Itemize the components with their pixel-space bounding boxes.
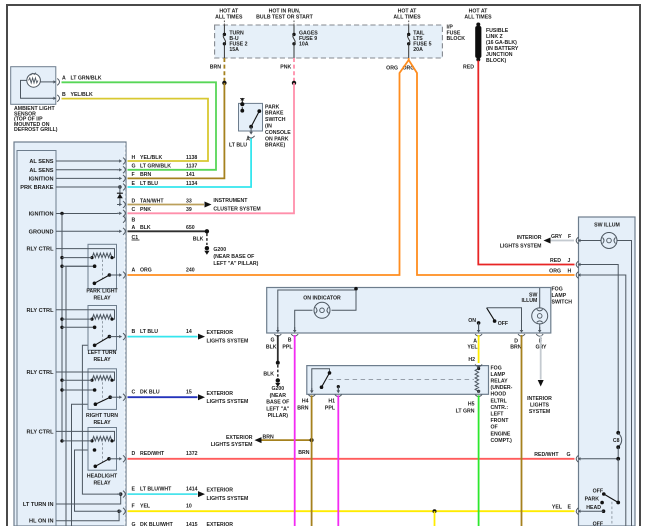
splice on PNK [292, 81, 296, 85]
fog switch internal wire lever to pin D [487, 308, 522, 332]
headlight switch box [579, 217, 636, 526]
wire illumination lamp down right side [617, 241, 632, 526]
svg-text:LIGHTS SYSTEM: LIGHTS SYSTEM [207, 339, 249, 345]
wire ORG fuse 5 split left branch [128, 58, 409, 275]
svg-text:EXTERIOR: EXTERIOR [207, 330, 234, 336]
svg-text:FOG: FOG [552, 287, 563, 293]
svg-text:LEFT "A" PILLAR): LEFT "A" PILLAR) [213, 261, 258, 267]
right turn relay coil [92, 376, 112, 381]
svg-text:LT BLU: LT BLU [140, 181, 158, 187]
svg-text:BLK: BLK [193, 237, 204, 243]
svg-text:PARK: PARK [585, 496, 600, 502]
svg-text:INTERIOR: INTERIOR [527, 396, 552, 402]
wire BLK dashed to G200 pillar [277, 365, 279, 377]
wire B LT BLU 14 [128, 336, 198, 338]
svg-text:LT GRN/BLK: LT GRN/BLK [71, 76, 102, 82]
svg-text:ON: ON [468, 318, 476, 324]
svg-text:YEL/BLK: YEL/BLK [140, 155, 162, 161]
headlight switch pin F [576, 237, 578, 244]
park brake switch terminal dots [240, 102, 244, 106]
svg-text:RLY CTRL: RLY CTRL [26, 247, 54, 253]
sensor internal wire to pin A [40, 81, 52, 83]
svg-text:G: G [270, 338, 274, 344]
fog switch internal wire pin G to edge junction [278, 290, 356, 332]
connector C2 pin B [117, 336, 122, 338]
fog switch ON contact [477, 321, 481, 325]
svg-text:ALL TIMES: ALL TIMES [215, 15, 243, 21]
junction pin F row [117, 510, 120, 513]
headlight switch pin H [576, 272, 578, 279]
svg-text:BULB TEST OR START: BULB TEST OR START [256, 15, 314, 21]
junction IGNITION bus [60, 212, 63, 215]
svg-text:PPL: PPL [325, 405, 336, 411]
svg-text:650: 650 [186, 225, 195, 231]
wire pin F to illumination lamp [584, 240, 602, 242]
svg-text:RED: RED [550, 258, 561, 264]
svg-text:DK BLU/WHT: DK BLU/WHT [140, 522, 174, 526]
svg-text:BLOCK): BLOCK) [486, 58, 506, 64]
fog lamp relay pin H1 stub [337, 385, 340, 388]
right turn relay contact feed wire [60, 388, 63, 391]
wire AL SENS to pin G [56, 169, 118, 171]
svg-text:ILLUM: ILLUM [522, 298, 538, 304]
svg-text:BASE OF: BASE OF [266, 400, 289, 406]
svg-text:BLOCK: BLOCK [447, 36, 466, 42]
svg-text:J: J [568, 258, 571, 264]
fusible link Z [476, 23, 480, 27]
svg-text:1372: 1372 [186, 451, 198, 457]
fog lamp relay armature lever [322, 373, 330, 387]
svg-text:PNK: PNK [140, 207, 151, 213]
sensor photocell element [27, 74, 41, 88]
left turn relay mechanical link [102, 321, 104, 341]
park light relay RLY CTRL wire to coil [56, 249, 115, 258]
svg-text:240: 240 [186, 267, 195, 273]
svg-text:141: 141 [186, 172, 195, 178]
svg-text:ENGINE: ENGINE [491, 431, 511, 437]
svg-text:RELAY: RELAY [93, 420, 111, 426]
svg-text:PARK: PARK [265, 104, 280, 110]
svg-text:ALL TIMES: ALL TIMES [393, 15, 421, 21]
svg-text:RED: RED [463, 65, 474, 71]
svg-text:H4: H4 [302, 399, 309, 405]
wire HL ON IN to pin F row [56, 511, 119, 521]
wire H5 LT GRN fog relay down [478, 395, 480, 526]
right turn relay box [88, 369, 117, 410]
park relay contact bus wire [66, 266, 95, 526]
svg-text:1415: 1415 [186, 522, 198, 526]
svg-text:HEADLIGHT: HEADLIGHT [87, 474, 118, 480]
right turn relay output stub to pin [110, 396, 117, 398]
svg-text:BLK: BLK [266, 344, 277, 350]
connector C1 pin B (empty) [123, 216, 125, 223]
fog lamp relay mechanical link [329, 379, 474, 381]
left turn relay stationary contact [93, 326, 97, 330]
svg-text:33: 33 [186, 198, 192, 204]
indicator lamp [314, 302, 330, 318]
svg-text:LT TURN IN: LT TURN IN [23, 502, 54, 508]
left turn relay output stub to pin [109, 336, 117, 338]
svg-text:C8: C8 [613, 438, 620, 444]
svg-text:B: B [132, 329, 136, 335]
svg-text:IGNITION: IGNITION [29, 212, 54, 218]
wire F YEL 10 to headlight switch pin E [128, 510, 575, 512]
svg-text:F: F [132, 172, 135, 178]
junction pin E row [119, 492, 122, 495]
svg-text:H: H [132, 155, 136, 161]
svg-text:LT BLU: LT BLU [229, 142, 247, 148]
svg-text:LT GRN/BLK: LT GRN/BLK [140, 164, 171, 170]
wire PNK fuse 9 to pin C [128, 83, 295, 213]
svg-text:ORG: ORG [549, 268, 561, 274]
ground G200 fog switch [276, 378, 280, 382]
splice on G BLK [276, 361, 280, 365]
wire A BLK 650 to ground [128, 230, 207, 232]
svg-text:F: F [568, 234, 571, 240]
svg-text:ELTRL: ELTRL [491, 398, 508, 404]
park brake switch box [239, 103, 263, 131]
svg-text:SYSTEM: SYSTEM [529, 409, 550, 415]
sensor pin B [52, 97, 55, 99]
fog lamp relay pin H5 [478, 390, 480, 393]
headlight relay coil [92, 436, 112, 441]
svg-text:LEFT TURN: LEFT TURN [88, 350, 117, 356]
svg-text:RLY CTRL: RLY CTRL [26, 370, 54, 376]
wire D BRN fog switch down [521, 335, 523, 526]
svg-text:G: G [132, 522, 136, 526]
svg-text:LIGHTS SYSTEM: LIGHTS SYSTEM [207, 496, 249, 502]
fog switch illumination lamp feed from box edge [539, 288, 541, 308]
connector C2 pin D [117, 458, 122, 460]
svg-text:PPL: PPL [282, 344, 293, 350]
svg-text:DEFROST GRILL): DEFROST GRILL) [14, 127, 58, 133]
svg-text:IGNITION: IGNITION [29, 176, 54, 182]
fog lamp relay coil [477, 367, 480, 370]
ignition bus wire [61, 214, 63, 441]
svg-text:LEFT "A": LEFT "A" [266, 406, 290, 412]
svg-text:INTERIOR: INTERIOR [517, 235, 542, 241]
fog lamp relay internal wire pin H4 to contact [312, 369, 330, 392]
svg-text:LIGHTS SYSTEM: LIGHTS SYSTEM [500, 243, 542, 249]
park light relay coil feed from ignition bus [60, 256, 63, 259]
svg-text:G200: G200 [213, 247, 226, 253]
headlight relay contact bus wire [75, 450, 119, 511]
svg-text:BRN: BRN [263, 434, 274, 440]
wire LT TURN IN to pin E row [56, 494, 121, 504]
wire bus to switch lever [617, 459, 619, 502]
connector C2 pin E [117, 493, 122, 495]
right turn relay RLY CTRL wire to coil [56, 372, 115, 380]
right turn relay mechanical link [102, 382, 104, 400]
left turn relay coil [92, 315, 112, 320]
connector C2 pin F [117, 510, 122, 512]
connector C2 pin C [117, 396, 122, 398]
headlight relay coil feed from ignition bus [60, 439, 63, 442]
fog switch illumination lamp to pin F [539, 324, 541, 332]
svg-text:EXTERIOR: EXTERIOR [226, 435, 253, 441]
park brake switch lever [251, 111, 259, 127]
fog lamp relay pin H4 [311, 388, 313, 392]
svg-text:CONSOLE: CONSOLE [265, 130, 291, 136]
wire A LT BLU park brake switch to pin E [128, 139, 252, 188]
headlight switch pin J [576, 261, 578, 268]
svg-text:D: D [132, 198, 136, 204]
svg-text:YEL: YEL [467, 344, 478, 350]
headlight relay output stub to pin [109, 458, 118, 460]
park brake switch pin A [250, 127, 252, 134]
svg-text:PILLAR): PILLAR) [268, 413, 289, 419]
svg-text:10: 10 [186, 504, 192, 510]
park light relay stationary contact [93, 264, 97, 268]
fog switch illumination lamp [532, 308, 548, 324]
wire IGNITION to pin C [56, 213, 118, 215]
wire pin H down [584, 275, 626, 526]
headlight switch lever [604, 494, 618, 503]
headlight switch illumination lamp [601, 233, 617, 249]
svg-text:SWITCH: SWITCH [265, 117, 286, 123]
svg-text:H2: H2 [468, 357, 475, 363]
svg-text:HEAD: HEAD [586, 505, 601, 511]
svg-text:GROUND: GROUND [29, 229, 54, 235]
connector C1 pin D [117, 204, 122, 206]
module inner box [17, 151, 56, 526]
fog switch lever to OFF [487, 308, 495, 321]
arrow BRN to exterior lights [255, 437, 262, 443]
svg-text:OFF: OFF [593, 521, 603, 526]
wire D RED/WHT 1372 to headlight switch pin G [128, 458, 575, 460]
svg-text:39: 39 [186, 207, 192, 213]
fog switch pin F [539, 327, 541, 331]
arrow GRY to interior lights [538, 380, 544, 387]
svg-text:BRN: BRN [298, 450, 309, 456]
park light relay armature lever [93, 282, 97, 286]
svg-text:A: A [62, 76, 66, 82]
sensor pin A [52, 81, 55, 83]
svg-text:RIGHT TURN: RIGHT TURN [86, 413, 118, 419]
wire AL SENS to pin H [56, 160, 118, 162]
svg-text:CLUSTER SYSTEM: CLUSTER SYSTEM [213, 206, 260, 212]
svg-text:HOOD: HOOD [491, 392, 507, 398]
svg-text:D: D [132, 451, 136, 457]
fog switch pin G [277, 327, 279, 331]
fuse F5 TAIL LTS FUSE 5 20A [408, 25, 410, 34]
wire B YEL/BLK sensor to pin H [62, 99, 209, 161]
svg-text:1137: 1137 [186, 164, 197, 170]
svg-text:E: E [132, 487, 136, 493]
svg-text:FOG: FOG [491, 365, 502, 371]
I/P fuse block (dashed box) [215, 25, 443, 58]
svg-text:INSTRUMENT: INSTRUMENT [213, 198, 248, 204]
svg-text:BRN: BRN [210, 65, 221, 71]
svg-text:ORG: ORG [140, 267, 152, 273]
wire G BLK fog switch to ground [277, 335, 279, 363]
arrow GRY interior lights [544, 238, 551, 244]
connector C1 pin A [117, 230, 122, 232]
svg-text:RED/WHT: RED/WHT [534, 452, 559, 458]
fuse F9 GAGES FUSE 9 10A [293, 25, 295, 34]
svg-text:LAMP: LAMP [491, 372, 506, 378]
wire C8 to RED/WHT junction [617, 447, 619, 459]
svg-text:AL SENS: AL SENS [29, 168, 53, 174]
wire A LT GRN/BLK sensor to pin G [62, 82, 217, 170]
wire D TAN/WHT 33 to instrument cluster [128, 204, 205, 206]
connector C2 pin A [117, 274, 122, 276]
junction RED/WHT bus [616, 457, 620, 461]
headlight switch PARK contact [600, 501, 604, 505]
svg-text:A: A [132, 267, 136, 273]
junction BRN branch [310, 438, 314, 442]
connector C1 pin E [117, 186, 122, 188]
svg-text:E: E [132, 181, 136, 187]
headlight relay mechanical link [102, 443, 104, 462]
fog lamp relay pin H1 [337, 388, 339, 392]
svg-text:CNTR.:: CNTR.: [491, 405, 509, 411]
svg-text:H5: H5 [468, 402, 475, 408]
wire RED fusible link to headlight switch pin J [478, 61, 574, 265]
wire YEL branch down [434, 511, 436, 526]
left turn relay arm bus wire [82, 345, 120, 494]
park light relay coil [92, 253, 112, 258]
svg-text:GRY: GRY [551, 234, 563, 240]
svg-text:1138: 1138 [186, 155, 197, 161]
fog lamp relay stationary contact [328, 371, 332, 375]
junction on PRK BRAKE wire [118, 185, 121, 188]
inline connector C8 [616, 431, 620, 435]
headlight relay box [88, 428, 117, 471]
wire ORG fuse 5 split right branch to headlight switch pin H [409, 60, 575, 275]
svg-text:YEL: YEL [552, 505, 563, 511]
fog lamp relay pin H2 [475, 364, 482, 366]
splice on BRN [222, 81, 226, 85]
svg-text:COMPT.): COMPT.) [491, 438, 513, 444]
right turn relay coil feed from ignition bus [60, 379, 63, 382]
svg-text:E: E [568, 505, 572, 511]
svg-text:BRAKE): BRAKE) [265, 143, 285, 149]
svg-text:C: C [132, 207, 136, 213]
wire BRN fuse 2 dashed segment [223, 58, 225, 83]
svg-text:G200: G200 [271, 386, 284, 392]
fog switch internal wire indicator lamp to pin B [295, 310, 313, 331]
svg-text:(UNDER-: (UNDER- [491, 385, 513, 391]
svg-text:ORG: ORG [386, 65, 398, 71]
headlight relay armature lever [94, 465, 98, 469]
wire BRN branch to exterior lights [261, 439, 312, 441]
wire H4 BRN fog relay down [311, 395, 313, 526]
svg-text:G: G [132, 164, 136, 170]
svg-text:1134: 1134 [186, 181, 197, 187]
wire H1 PPL fog relay down [337, 395, 339, 526]
svg-text:LIGHTS SYSTEM: LIGHTS SYSTEM [211, 442, 253, 448]
arrow E to exterior lights [198, 491, 205, 497]
svg-text:SW ILLUM: SW ILLUM [594, 222, 620, 228]
fog switch internal wire junction to indicator lamp [332, 290, 357, 310]
wire IGNITION to pin F [56, 177, 118, 179]
left turn relay contact feed wire [60, 326, 63, 329]
svg-text:ON INDICATOR: ON INDICATOR [303, 296, 341, 302]
svg-text:LIGHTS: LIGHTS [530, 403, 550, 409]
svg-text:BRN: BRN [297, 405, 308, 411]
fuse F2 TURN B-U FUSE 2 15A [223, 25, 225, 34]
headlight switch HEAD contact [602, 509, 606, 513]
svg-text:RELAY: RELAY [93, 481, 111, 487]
headlight switch pin E [576, 508, 578, 515]
arrow C to exterior lights [198, 394, 205, 400]
headlight switch OFF contact [602, 492, 606, 496]
svg-text:RED/WHT: RED/WHT [140, 451, 165, 457]
wire pin G to switch bus [584, 458, 619, 460]
connector C1 pin C [117, 212, 122, 214]
connector face texture [124, 143, 126, 526]
svg-text:ON PARK: ON PARK [265, 136, 289, 142]
svg-text:F: F [132, 504, 135, 510]
left turn relay box [88, 306, 117, 351]
svg-text:LT BLU: LT BLU [140, 329, 158, 335]
svg-text:BRN: BRN [510, 344, 521, 350]
fog switch pin A [478, 325, 480, 331]
fog switch pin A wire from ON contact [478, 323, 480, 332]
connector C1 pin G [117, 169, 122, 171]
right turn relay arm bus wire [72, 404, 96, 526]
arrow B to exterior lights [198, 334, 205, 340]
svg-text:(NEAR BASE OF: (NEAR BASE OF [213, 254, 254, 260]
svg-text:H1: H1 [328, 399, 335, 405]
svg-text:PNK: PNK [280, 65, 291, 71]
svg-text:FRONT: FRONT [491, 418, 510, 424]
headlight relay RLY CTRL wire to coil [56, 431, 115, 441]
svg-text:15: 15 [186, 390, 192, 396]
diode to pin D [119, 187, 121, 205]
ambient light sensor box [11, 67, 56, 105]
sensor internal wire to pin B [21, 80, 53, 98]
svg-text:B: B [132, 218, 136, 224]
svg-text:RELAY: RELAY [491, 379, 509, 385]
wire GRY to interior lights [549, 240, 574, 242]
svg-text:YEL: YEL [140, 504, 151, 510]
svg-text:HL ON IN: HL ON IN [29, 519, 53, 525]
svg-text:B: B [62, 92, 66, 98]
svg-text:OF: OF [491, 425, 498, 431]
svg-text:G: G [567, 452, 571, 458]
svg-text:DK BLU: DK BLU [140, 390, 160, 396]
svg-text:RELAY: RELAY [93, 296, 111, 302]
wire GROUND to pin A [56, 230, 118, 232]
left turn relay coil feed from ignition bus [60, 317, 63, 320]
connector C1 pin H [117, 160, 122, 162]
svg-text:B: B [288, 338, 292, 344]
svg-text:BRN: BRN [140, 172, 151, 178]
svg-text:LT BLU/WHT: LT BLU/WHT [140, 487, 172, 493]
svg-text:RELAY: RELAY [93, 357, 111, 363]
svg-text:OFF: OFF [498, 321, 508, 327]
svg-text:RLY CTRL: RLY CTRL [26, 308, 54, 314]
headlight switch mechanical link [611, 502, 613, 526]
park brake switch feed symbol [241, 100, 243, 103]
junction on fog switch box edge [354, 287, 358, 291]
svg-text:(NEAR: (NEAR [270, 393, 287, 399]
wire PRK BRAKE to pin E [56, 186, 118, 188]
svg-text:RLY CTRL: RLY CTRL [26, 429, 54, 435]
junction on YEL wire [433, 509, 437, 513]
svg-text:A: A [132, 225, 136, 231]
fog switch pin B [294, 327, 296, 331]
svg-text:ALL TIMES: ALL TIMES [464, 15, 492, 21]
right turn relay stationary contact [93, 388, 97, 392]
wire pin J down to dimmer feed [584, 265, 619, 432]
wire A YEL fog switch to relay pin H2 [478, 335, 480, 363]
lighting module box [14, 142, 126, 526]
svg-text:EXTERIOR: EXTERIOR [207, 522, 234, 526]
svg-text:1414: 1414 [186, 487, 198, 493]
